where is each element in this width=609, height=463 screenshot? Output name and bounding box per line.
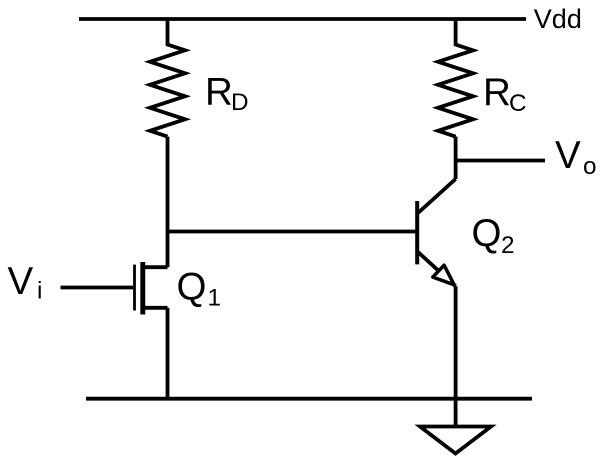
label RC xyxy=(483,71,527,117)
svg-text:Vdd: Vdd xyxy=(534,4,582,34)
wire Vo output lead xyxy=(456,159,545,163)
svg-text:V: V xyxy=(555,134,581,177)
svg-text:D: D xyxy=(231,89,249,116)
svg-text:C: C xyxy=(509,90,527,117)
svg-text:2: 2 xyxy=(501,232,515,259)
wire Q1 source to ground rail xyxy=(166,308,170,399)
wire Vdd top rail xyxy=(79,17,526,21)
wire ground bottom rail xyxy=(86,397,532,401)
svg-text:o: o xyxy=(583,153,597,180)
ground symbol xyxy=(420,427,491,454)
transistor Q2 BJT xyxy=(417,179,455,286)
label Vo xyxy=(555,134,597,180)
label Vi xyxy=(8,260,43,305)
svg-text:i: i xyxy=(37,277,42,304)
resistor RD xyxy=(150,19,185,137)
wire Q2 emitter to ground xyxy=(454,286,458,426)
wire node drain to Q2 base xyxy=(168,230,418,234)
svg-text:Q: Q xyxy=(177,266,207,309)
svg-text:1: 1 xyxy=(208,284,222,311)
svg-text:R: R xyxy=(483,71,511,114)
wire Vi gate lead xyxy=(61,286,134,290)
wire RC bottom to collector xyxy=(454,137,458,179)
emitter arrowhead Q2 xyxy=(433,265,454,285)
svg-text:Q: Q xyxy=(472,212,502,255)
wire RD bottom to Q1 drain xyxy=(166,137,170,268)
svg-text:V: V xyxy=(8,260,34,303)
svg-text:R: R xyxy=(205,71,233,114)
label RD xyxy=(205,71,249,117)
label Q2 xyxy=(472,212,515,259)
transistor Q1 MOSFET xyxy=(135,262,168,315)
label Q1 xyxy=(177,266,222,312)
resistor RC xyxy=(438,19,473,137)
